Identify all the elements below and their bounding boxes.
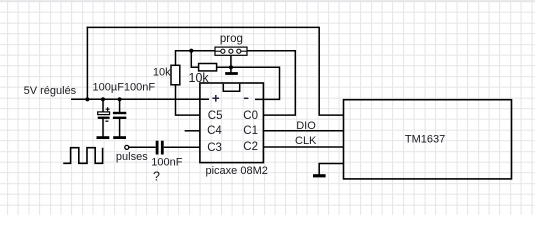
pin + power [213, 95, 220, 102]
ground bar under prog [225, 72, 238, 75]
wire prog pin1 to R1 top [176, 51, 216, 66]
wire 100uF cap top lead [102, 99, 104, 112]
connector prog header [215, 47, 247, 55]
resistor R1 10k vertical [171, 65, 180, 85]
wire 5V rail [71, 98, 209, 100]
ground bar TM1637 [313, 174, 326, 177]
wire right descender to TM1637 VCC [319, 27, 343, 115]
node junction 5V riser [85, 97, 89, 101]
wire R1 bottom to C5 pin [176, 85, 201, 115]
wire 100uF cap bottom lead [102, 119, 104, 138]
IC U2 TM1637 box [344, 100, 512, 179]
capacitor C3 100nF series [156, 141, 164, 155]
svg-text:C5: C5 [208, 110, 223, 122]
wire prog pin2 down to ground [230, 53, 232, 73]
wire pulses node to 100nF cap [129, 146, 156, 148]
node junction 100uF [101, 97, 105, 101]
wire C4 stub [185, 130, 200, 132]
svg-text:C3: C3 [207, 142, 222, 154]
svg-text:?: ? [153, 170, 160, 184]
wire left riser to top bus [86, 27, 88, 100]
wire R2 right to chip minus pin [217, 67, 280, 99]
ground bar under 100uF [97, 136, 110, 139]
svg-text:C4: C4 [207, 125, 222, 137]
svg-text:C1: C1 [243, 125, 258, 137]
wire top 5V bus [87, 26, 320, 28]
svg-text:prog: prog [220, 33, 243, 45]
svg-text:C0: C0 [243, 110, 258, 122]
node junction prog line [189, 49, 193, 53]
resistor R2 10k horizontal [199, 64, 217, 71]
node pulses input open circle [125, 145, 129, 149]
wire TM1637 GND [319, 164, 343, 175]
wire C0 to prog pin3 [247, 51, 295, 115]
svg-text:10k: 10k [153, 67, 171, 79]
wire junction branch down to R2 left [191, 51, 198, 68]
svg-text:100µF100nF: 100µF100nF [93, 82, 156, 94]
svg-text:100nF: 100nF [151, 157, 182, 169]
svg-text:TM1637: TM1637 [405, 134, 445, 146]
wire 100nF cap to C3 pin [164, 146, 200, 148]
wire DIO net C1 to TM1637 [263, 130, 343, 132]
capacitor C1 100uF electrolytic [98, 107, 110, 121]
IC U1 picaxe 08M2 body [200, 83, 264, 163]
svg-text:DIO: DIO [296, 120, 316, 132]
wire CLK net C2 to TM1637 [263, 146, 343, 148]
wire 100nF cap top lead [119, 99, 121, 112]
square wave pulse symbol [63, 148, 102, 164]
node junction 100nF [118, 97, 122, 101]
svg-text:5V régulés: 5V régulés [24, 85, 77, 97]
svg-text:C2: C2 [243, 141, 258, 153]
pin - power [244, 97, 249, 99]
svg-text:pulses: pulses [116, 151, 148, 163]
svg-text:picaxe 08M2: picaxe 08M2 [206, 165, 268, 177]
capacitor C2 100nF [113, 112, 126, 119]
wire 100nF cap bottom lead [119, 119, 121, 138]
node junction ground net [229, 65, 233, 69]
svg-text:CLK: CLK [295, 135, 317, 147]
ground bar under 100nF [113, 136, 126, 139]
